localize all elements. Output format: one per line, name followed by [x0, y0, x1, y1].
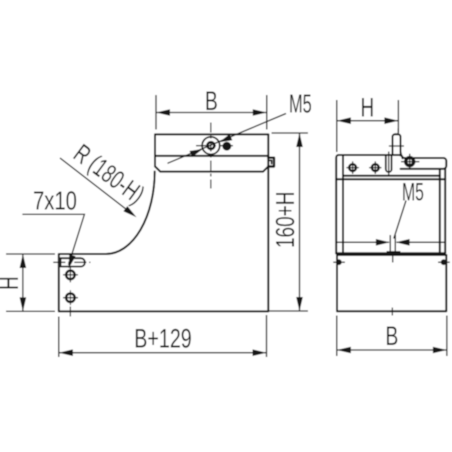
bottom center tick (right view)	[391, 308, 393, 316]
outer left wall	[336, 155, 399, 253]
svg-text:B+129: B+129	[134, 325, 192, 355]
horizontal center line of nut	[196, 145, 233, 147]
inner left wall	[342, 156, 344, 253]
flange hole a (right view)	[346, 161, 358, 173]
side tab (right view)	[389, 129, 404, 158]
bend arc R(180-H)	[106, 172, 155, 255]
body outline (bracket, bottom, right edge)	[59, 134, 268, 311]
dimension 160+H (right of main view)	[269, 133, 309, 311]
dimension B (bottom, right view)	[337, 316, 447, 357]
vertical center line of nut	[210, 123, 212, 189]
svg-text:M5: M5	[289, 89, 312, 119]
bracket hole 1	[63, 268, 78, 283]
upper box bottom band	[336, 252, 445, 254]
stud base plate	[387, 251, 401, 254]
M5 nut hole (right view)	[401, 154, 419, 170]
M5 leader (main view): diagonal line through nut with two arrowheads	[168, 114, 287, 164]
flange bottom lines	[343, 175, 440, 177]
hole inner	[208, 142, 215, 149]
M5 leader (right view)	[394, 201, 406, 239]
right side tab	[268, 158, 274, 167]
flange bottom chamfered edge	[155, 166, 268, 171]
R leader arrow	[60, 158, 133, 215]
weld dot left (right view)	[336, 259, 342, 265]
svg-text:7x10: 7x10	[33, 186, 77, 215]
slot center line	[53, 261, 90, 263]
step and ledge with M5 nut	[400, 155, 447, 169]
leader 7x10	[22, 214, 84, 265]
dimension B (top, main view)	[156, 95, 267, 130]
M5 stud dimension (right view)	[337, 235, 445, 254]
dimension H (left, main view)	[6, 254, 55, 311]
slot 7x10 (main view)	[61, 258, 85, 266]
svg-text:160+H: 160+H	[270, 192, 300, 248]
right walls below ledge	[444, 168, 446, 253]
flange inner line	[155, 155, 268, 157]
svg-text:B: B	[385, 321, 398, 351]
svg-text:B: B	[205, 86, 218, 116]
svg-text:M5: M5	[402, 179, 424, 207]
flange hole b (right view)	[369, 161, 381, 173]
M5 nut hole (main view)	[202, 137, 220, 155]
top flange box	[155, 134, 268, 166]
lower box	[337, 255, 446, 311]
bracket hole 2	[63, 290, 78, 305]
dimension H (top, right view)	[337, 100, 399, 152]
svg-text:H: H	[0, 276, 24, 290]
weld dot beside nut	[222, 142, 231, 151]
dimension B+129 (bottom, main view)	[59, 315, 267, 357]
svg-text:H: H	[360, 92, 374, 122]
flange slot (right view, U shape)	[386, 152, 392, 177]
bottom center tick below holes	[69, 307, 71, 317]
thread circle outer	[202, 137, 220, 155]
weld dot right (right view)	[441, 259, 447, 265]
stud center line	[392, 256, 394, 263]
